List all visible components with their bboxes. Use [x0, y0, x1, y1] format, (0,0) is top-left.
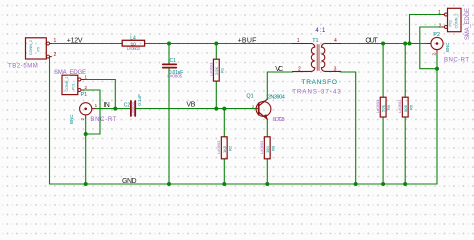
svg-text:2: 2 — [54, 52, 57, 58]
resistor R3 — [264, 137, 270, 159]
resistor R2 — [221, 137, 227, 159]
svg-text:2N3904: 2N3904 — [268, 94, 285, 100]
svg-text:P5: P5 — [37, 47, 41, 52]
resistor R5 — [380, 97, 386, 117]
svg-text:L#0603: L#0603 — [259, 140, 264, 154]
svg-text:CONN_2: CONN_2 — [65, 77, 69, 92]
junction OUT at R5 — [381, 42, 385, 46]
junction node IN — [113, 107, 117, 111]
svg-text:R5: R5 — [386, 104, 391, 110]
wire OUT to R6 top — [404, 44, 406, 98]
wire Q1 emitter to R3 — [266, 119, 268, 137]
T1 pin 1 — [293, 44, 315, 48]
junction GND at R2 — [222, 182, 226, 186]
svg-text:4:1: 4:1 — [315, 28, 326, 34]
junction OUT at SMA riser — [408, 42, 412, 46]
inductor L4 body — [122, 40, 144, 46]
connector P02 SMA_EDGE body — [443, 8, 462, 31]
svg-text:P01: P01 — [72, 83, 76, 90]
svg-text:OUT: OUT — [365, 38, 378, 45]
T1 pin 2 — [293, 68, 315, 72]
wire Q1 collector riser to VC — [266, 72, 268, 99]
wire VC to T1 pin2 — [267, 71, 292, 73]
connector P5 TB2-5MM body — [26, 38, 52, 59]
svg-text:1K5: 1K5 — [222, 145, 227, 153]
wire BNC P2 shield riser to GND — [436, 53, 438, 184]
wire SMA P01 pin2 to BNC shield — [84, 90, 101, 134]
T1 secondary winding — [321, 47, 324, 68]
svg-text:+BUF: +BUF — [238, 37, 257, 44]
svg-text:2.2K: 2.2K — [214, 66, 219, 75]
svg-text:+12V: +12V — [67, 37, 83, 44]
junction GND at R3 — [265, 182, 269, 186]
junction VB at R2 — [222, 107, 226, 111]
T1 primary winding — [311, 47, 314, 68]
svg-text:L#0603: L#0603 — [130, 101, 135, 115]
svg-text:L#0805: L#0805 — [167, 74, 182, 79]
svg-text:4: 4 — [334, 38, 337, 44]
wire VB to R2 top — [223, 109, 225, 137]
svg-text:L#0603: L#0603 — [375, 99, 380, 113]
transistor Q1 — [256, 99, 271, 119]
svg-text:SMA_EDGE: SMA_EDGE — [54, 70, 86, 76]
svg-text:P1: P1 — [81, 92, 88, 98]
wire junction to C1 top — [168, 44, 170, 64]
resistor R1 — [213, 59, 219, 81]
wire +12V rail from TB2 pin1 to L4 — [50, 43, 122, 45]
svg-text:Q1: Q1 — [246, 94, 253, 100]
junction GND at C1 — [167, 182, 171, 186]
wire R6 bottom to GND — [404, 117, 406, 184]
junction VB at R1 — [214, 107, 218, 111]
svg-text:P02: P02 — [449, 20, 453, 27]
svg-text:1: 1 — [54, 38, 57, 44]
wire BNC P1 pin1 to C2 — [95, 108, 130, 110]
wire OUT riser to SMA P02 pin1 — [410, 15, 445, 44]
wire SMA P01 pin1 to IN node — [84, 80, 116, 109]
capacitor C1 — [163, 64, 176, 67]
svg-text:L#0603: L#0603 — [127, 46, 141, 51]
svg-text:1: 1 — [297, 38, 300, 44]
svg-text:3: 3 — [334, 67, 337, 73]
svg-text:R2: R2 — [227, 145, 232, 151]
svg-text:1: 1 — [438, 10, 441, 16]
svg-text:GND: GND — [122, 178, 137, 185]
svg-text:R1: R1 — [219, 67, 224, 73]
svg-text:CONN_2: CONN_2 — [454, 14, 458, 29]
connector P01 SMA_EDGE body — [62, 75, 84, 94]
junction BNC P1 shield — [84, 132, 88, 136]
wire GND rail — [50, 183, 438, 185]
wire BNC P1 pin2 riser to GND — [85, 118, 87, 184]
svg-text:TRANSFO: TRANSFO — [302, 79, 337, 86]
svg-text:P2: P2 — [433, 32, 440, 38]
svg-text:R3: R3 — [270, 145, 275, 151]
wire OUT to R5 top — [382, 44, 384, 98]
svg-text:2: 2 — [298, 67, 301, 73]
connector P1 BNC body — [80, 103, 95, 118]
junction on rail at C1 — [167, 42, 171, 46]
capacitor C2 series — [131, 101, 135, 116]
svg-text:2: 2 — [439, 23, 442, 29]
svg-text:2: 2 — [80, 118, 85, 121]
svg-text:VC: VC — [275, 66, 283, 73]
svg-text:BNC: BNC — [69, 114, 74, 124]
wire R3 bottom to GND — [266, 159, 268, 184]
svg-text:1: 1 — [95, 103, 98, 108]
resistor R6 — [402, 97, 408, 117]
svg-text:TB2-5MM: TB2-5MM — [8, 63, 38, 69]
svg-text:C1: C1 — [170, 58, 177, 64]
junction OUT at R6 — [403, 42, 407, 46]
svg-text:50E: 50E — [403, 105, 408, 112]
transformer T1 — [293, 44, 341, 72]
T1 pin 3 — [321, 68, 340, 72]
junction BNC P2 shield — [435, 67, 439, 71]
svg-text:IN: IN — [104, 102, 110, 109]
wire C2 to Q1 base (VB net) — [136, 108, 259, 110]
wire SMA P02 pin2 down — [420, 27, 444, 69]
wire TB2 pin2 riser to GND — [49, 57, 52, 184]
T1 pin 4 — [321, 44, 340, 48]
svg-text:T1: T1 — [312, 38, 318, 44]
wire R1 bottom to VB — [215, 81, 217, 109]
svg-text:TRANS-37-43: TRANS-37-43 — [292, 89, 341, 95]
wire C1 bottom to GND — [168, 69, 170, 184]
junction GND at T1 pin3 riser — [354, 182, 358, 186]
svg-text:0.1uF: 0.1uF — [137, 94, 142, 106]
wire OUT rail from T1 pin4 to BNC P2 — [341, 43, 427, 45]
svg-text:VB: VB — [186, 102, 195, 109]
wire +BUF rail from L4 to T1 pin1 — [145, 43, 293, 45]
svg-text:50E: 50E — [381, 105, 386, 112]
junction GND at BNC P1 — [84, 182, 88, 186]
svg-text:2: 2 — [432, 53, 437, 56]
wire R5 bottom to GND — [382, 117, 384, 184]
wire R2 bottom to GND — [223, 159, 225, 184]
svg-text:L#0603: L#0603 — [397, 99, 402, 113]
T1 core — [316, 45, 318, 71]
svg-text:CONN_2: CONN_2 — [29, 40, 33, 55]
connector P2 BNC body — [427, 37, 443, 53]
wire rail to R1 top — [215, 44, 217, 60]
junction GND at R6 — [403, 182, 407, 186]
wire T1 pin3 stub — [341, 71, 356, 73]
svg-text:SMA_EDGE: SMA_EDGE — [465, 8, 471, 40]
svg-text:BNC-RT: BNC-RT — [444, 57, 469, 63]
wire T1 pin3 riser to GND — [355, 72, 357, 184]
svg-text:SOT23: SOT23 — [273, 117, 285, 123]
junction GND at R5 — [381, 182, 385, 186]
svg-text:150: 150 — [265, 146, 270, 153]
svg-text:L#0603: L#0603 — [208, 62, 213, 76]
svg-text:BNC-RT: BNC-RT — [90, 117, 116, 123]
svg-text:BNC: BNC — [445, 42, 450, 52]
svg-text:R6: R6 — [408, 104, 413, 110]
junction on rail at R1 — [214, 42, 218, 46]
svg-text:L#0603: L#0603 — [216, 140, 221, 154]
